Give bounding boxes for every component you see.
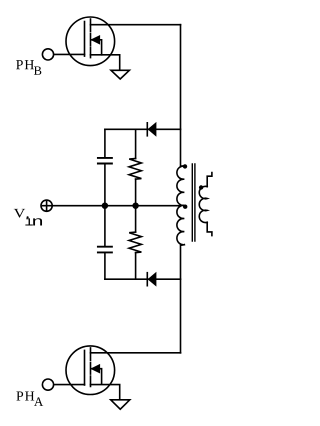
node: junction C branch / V_in rail: [102, 203, 108, 209]
terminal PH_B (open circle): [42, 49, 53, 60]
transistor Q_B (top MOSFET) circle: [66, 17, 115, 66]
transistor Q_A body arrow: [91, 369, 101, 384]
wire: Q_B gate lead: [54, 53, 84, 55]
node: primary top dot: [183, 164, 187, 168]
wire: right bus (top section): [181, 25, 185, 166]
transformer T1 secondary bottom lead: [207, 222, 212, 235]
transistor Q_A (bottom MOSFET) circle: [66, 346, 115, 395]
capacitor C1 lower lead: [104, 164, 106, 206]
transistor Q_A gate plate: [84, 350, 86, 385]
wire: Q_B drain to right bus: [91, 24, 181, 26]
resistor R1 lower lead: [135, 179, 137, 206]
transistor Q_A channel segments: [90, 348, 92, 387]
label PH_A: [16, 391, 43, 405]
resistor R2 lower lead: [135, 253, 137, 280]
capacitor C2 plates: [98, 247, 112, 253]
capacitor C1 branch upper lead: [104, 129, 106, 157]
label V_in: [14, 209, 42, 226]
diode D1 (top, cathode left): [147, 123, 156, 136]
resistor R2 upper lead: [135, 206, 137, 232]
wire: V_in rail: [53, 205, 180, 207]
transformer T1 secondary winding: [199, 186, 207, 222]
transistor Q_B body arrow: [91, 40, 101, 55]
ground (bottom): [111, 400, 130, 409]
node: junction R branch / V_in rail: [132, 203, 138, 209]
diode D2 (bottom, cathode left): [147, 273, 156, 286]
wire: top clamp rail with corner: [105, 128, 181, 130]
node: secondary polarity dot: [199, 185, 203, 189]
capacitor C1 plates: [98, 158, 112, 164]
wire: Q_A drain to right bus: [91, 352, 181, 354]
wire: right bus (bottom section): [181, 245, 185, 353]
wire: Q_A gate lead: [54, 384, 84, 386]
ground (top): [111, 70, 129, 79]
terminal V_in (circle with plus): [41, 200, 52, 211]
terminal PH_A (open circle): [42, 379, 53, 390]
capacitor C2 upper lead: [104, 206, 106, 247]
wire: bottom clamp rail: [105, 278, 181, 280]
wire: Q_B source to ground: [91, 55, 120, 71]
label PH_B: [16, 60, 41, 75]
transformer T1 core: [192, 164, 195, 241]
transistor Q_B channel segments: [90, 19, 92, 58]
transformer T1 primary winding: [177, 166, 184, 245]
resistor R1 upper lead: [135, 129, 137, 158]
transformer T1 secondary top lead: [207, 173, 212, 187]
resistor R2 zigzag: [129, 232, 141, 253]
transistor Q_B gate plate: [84, 22, 86, 57]
resistor R1 zigzag: [129, 158, 141, 179]
wire: Q_A source to ground: [91, 385, 120, 400]
node: primary center-tap dot: [183, 205, 187, 209]
capacitor C2 lower lead: [104, 253, 106, 280]
